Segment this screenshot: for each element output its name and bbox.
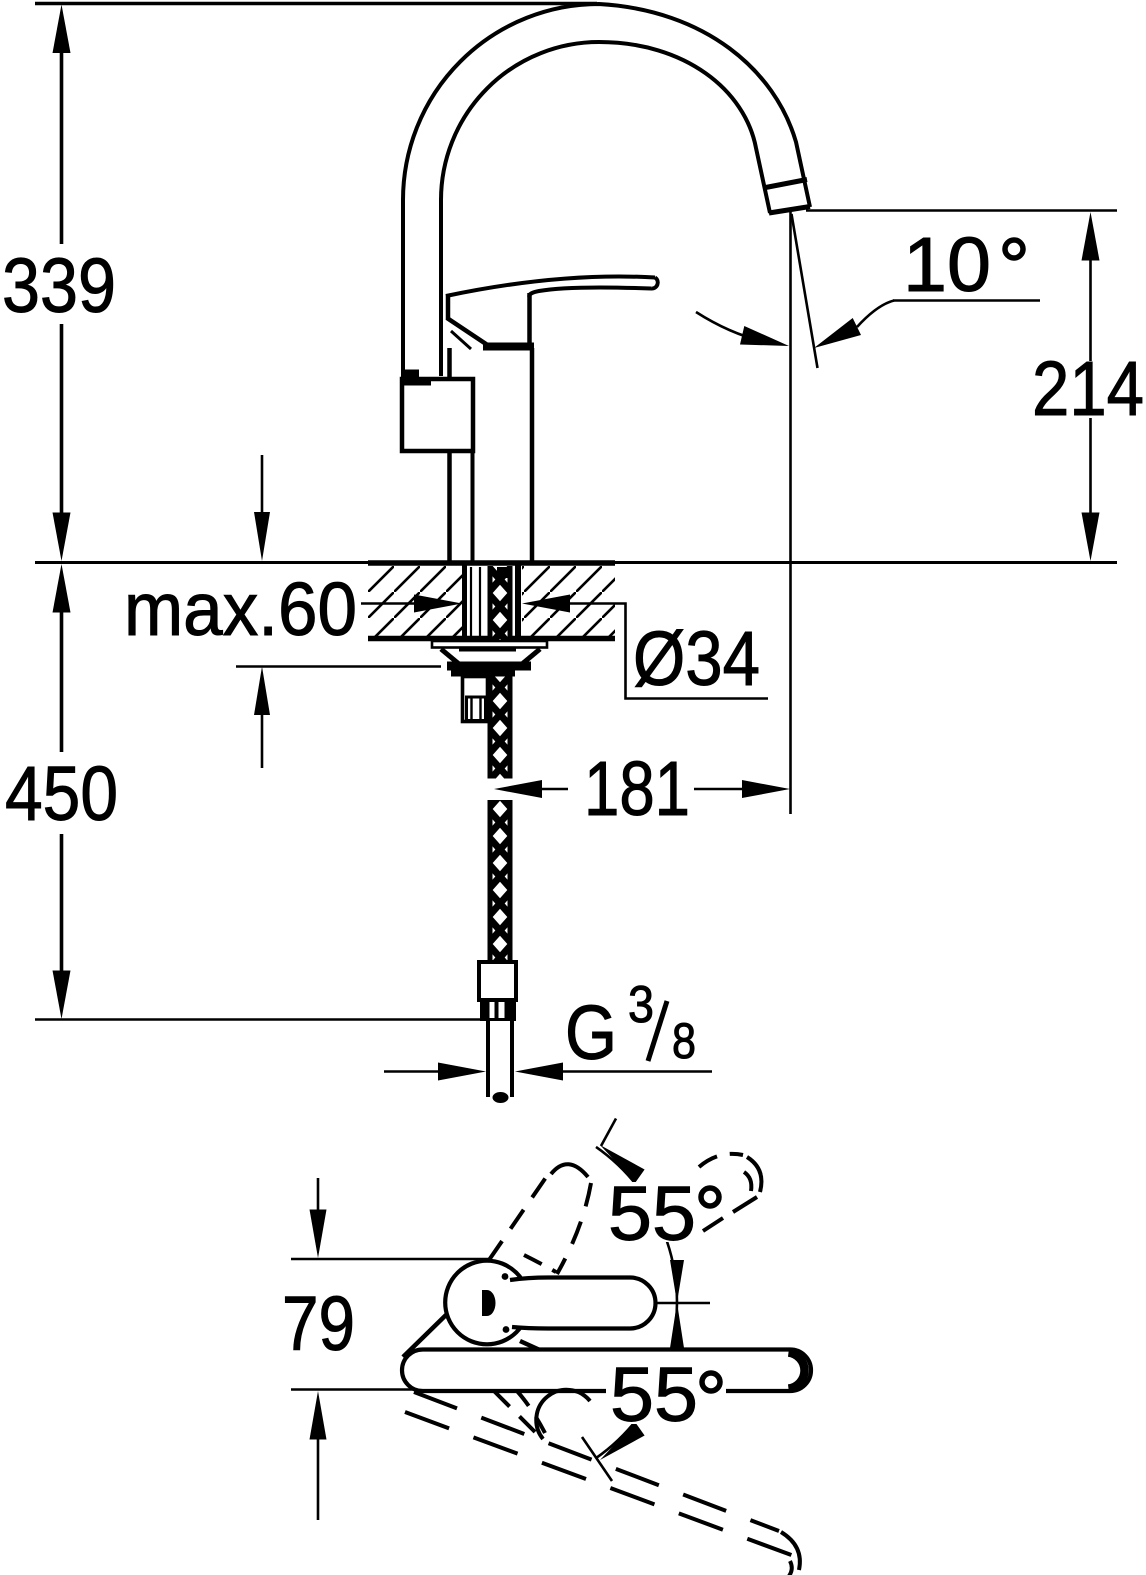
lower 55 arc (r=190) <box>596 1303 677 1459</box>
spout inner edge <box>441 42 770 213</box>
rotated lever down: left edge dashes <box>494 1391 540 1437</box>
dim 181 right arrow <box>742 780 790 798</box>
base tangent line right <box>520 1341 542 1351</box>
body right edge <box>530 348 535 561</box>
lever dot bottom <box>503 1326 510 1333</box>
braided hose side rails <box>490 566 510 966</box>
10deg underline <box>893 299 1040 302</box>
rotated lever up: tip cap dash <box>551 1164 588 1177</box>
shank end inner box <box>467 697 486 721</box>
braided hose (through hole and below nut) <box>488 566 512 640</box>
rotated lever up: left edge dashes <box>489 1173 549 1260</box>
svg-text:8: 8 <box>672 1013 696 1069</box>
rotated lever down: tip cap dash <box>536 1390 590 1439</box>
dim 339 line <box>60 52 64 514</box>
rotated spout down: lower edge dashes <box>405 1412 802 1559</box>
countertop section: left hatched block <box>368 566 462 636</box>
base tangent line left <box>403 1314 447 1357</box>
dim 79 arrow up <box>310 1391 327 1440</box>
top extension line <box>35 2 597 5</box>
side connection box <box>402 379 473 451</box>
svg-text:450: 450 <box>5 751 118 837</box>
lever dot top <box>502 1273 509 1280</box>
hole: shank right wall <box>515 563 521 640</box>
locknut upper black bar <box>447 662 531 671</box>
swing arc <box>696 312 775 344</box>
thin supply tube right edge <box>510 1021 514 1097</box>
hose end nut white slits <box>490 1002 495 1018</box>
dim 339 arrow up <box>53 5 71 54</box>
label 10 degree ring <box>1005 240 1023 258</box>
hole: shank left wall <box>462 563 467 640</box>
body inner line below box <box>471 451 475 561</box>
dim 339 arrow down <box>53 513 71 562</box>
svg-text:181: 181 <box>584 746 690 832</box>
dim 214 line <box>1089 259 1092 514</box>
spout riser outer line <box>401 198 405 378</box>
spout aerator band line <box>763 180 807 189</box>
upper 55 degree ring <box>701 1188 719 1206</box>
dim 450 arrow down <box>53 971 71 1020</box>
lever front vertical edge <box>446 294 451 320</box>
label 55 upper (with white bg) <box>604 1182 700 1242</box>
lever axis centerline <box>657 1302 710 1304</box>
upper 55 arc arrow <box>600 1145 645 1183</box>
hose end collar <box>479 962 516 1000</box>
thin supply tube left edge <box>486 1021 490 1097</box>
label 55 lower (with white bg) <box>606 1366 726 1424</box>
max60 right arrow <box>522 595 570 613</box>
dim 214 arrow up <box>1082 212 1100 261</box>
dim 181 left arrow <box>494 780 542 798</box>
max60 mid up-arrow line <box>261 715 264 768</box>
fraction slash <box>648 1001 667 1061</box>
max60 mid down-arrow <box>254 512 270 561</box>
svg-text:10: 10 <box>903 222 991 308</box>
max60 lower reference line <box>236 665 441 668</box>
lever handle top edge <box>446 276 655 296</box>
max60 left arrow <box>414 595 462 613</box>
svg-text:79: 79 <box>282 1281 355 1367</box>
rotated spout down: end cap inner dash <box>789 1561 792 1575</box>
lower 55 degree ring <box>702 1373 720 1391</box>
hole: stud thin line b <box>479 567 481 640</box>
lever handle bottom edge <box>529 287 651 297</box>
shank end inner vlines <box>472 698 481 720</box>
washer slant right <box>522 649 540 664</box>
svg-text:55: 55 <box>608 1171 696 1257</box>
washer slant left <box>441 649 459 664</box>
lower 55 arc arrow <box>600 1423 645 1461</box>
svg-text:55: 55 <box>610 1352 698 1438</box>
79 bottom extension line <box>291 1388 415 1391</box>
handle pivot circle <box>445 1261 529 1345</box>
spout outer edge <box>403 4 810 207</box>
countertop section: thick bottom edge <box>368 636 615 642</box>
10deg leader arrow <box>814 318 861 348</box>
dim 79 upper line <box>317 1178 320 1210</box>
dim 79 arrow down <box>310 1210 327 1259</box>
max60 leader line right / O34 corner <box>570 604 768 699</box>
dim G38 left line <box>384 1070 440 1073</box>
hole: stud thin line a <box>470 567 472 640</box>
lever outline <box>510 1278 656 1329</box>
lever handle tip cap <box>651 278 658 289</box>
rotated lever down: right edge dash <box>517 1391 545 1433</box>
spout bar thick end cap <box>789 1353 805 1389</box>
spout riser inner line <box>439 198 443 376</box>
cartridge dome slant outer <box>447 318 492 348</box>
hose end nut black <box>480 999 516 1021</box>
svg-text:Ø34: Ø34 <box>633 616 760 702</box>
max60 mid down-arrow line <box>261 455 264 513</box>
dim 181 line left <box>540 788 568 791</box>
swing arc arrow <box>740 326 789 346</box>
10deg leader curve <box>857 301 894 328</box>
flow direction 10deg line <box>792 214 818 368</box>
dim 79 lower line <box>317 1439 320 1520</box>
rotated spout down: end cap outer dash <box>781 1532 800 1570</box>
svg-text:3: 3 <box>628 976 654 1034</box>
spout bar <box>402 1350 811 1392</box>
bowtie arrow lower (points up) <box>670 1303 684 1349</box>
rotated lever up: right edge dashes <box>557 1183 591 1274</box>
lower rotated-lever centerline extension <box>582 1437 612 1481</box>
shank end outer box <box>463 677 488 722</box>
cartridge dome slant inner <box>451 331 471 349</box>
braid cap black top <box>497 567 511 578</box>
mounting washer plate <box>432 641 547 648</box>
dim G38 right line <box>563 1070 712 1073</box>
dim 450 bottom extension line <box>35 1018 486 1021</box>
braid white gap for 181 arrow <box>486 779 513 801</box>
dim G38 right arrow <box>515 1063 563 1081</box>
lever mask fill <box>510 1278 656 1329</box>
svg-text:max.60: max.60 <box>124 567 357 651</box>
spout outlet face <box>769 207 810 214</box>
max60 leader line left <box>361 602 416 605</box>
side box inner top line <box>404 381 431 386</box>
svg-text:214: 214 <box>1032 346 1144 432</box>
upper 55 arc (r=190) <box>596 1147 677 1303</box>
countertop section: right hatched block <box>522 566 615 636</box>
dim 450 arrow up <box>53 564 71 613</box>
rotated spout up: end cap dashes <box>699 1154 743 1167</box>
side box top tick <box>403 370 419 378</box>
bowtie arrow upper (points down) <box>670 1260 684 1303</box>
214 top extension line <box>806 209 1117 212</box>
svg-text:G: G <box>565 990 617 1076</box>
svg-text:339: 339 <box>2 243 116 329</box>
vertical reference line from spout tip <box>789 212 792 814</box>
rotated lever up: neck dash <box>524 1255 556 1272</box>
dim 181 line right <box>694 788 744 791</box>
countertop section: thick top edge <box>368 560 615 566</box>
dim 450 line <box>60 611 64 972</box>
body top cap bar <box>483 343 534 351</box>
lever D-mark <box>482 1290 496 1316</box>
cartridge stem vertical <box>527 293 532 348</box>
79 top extension line <box>291 1258 489 1261</box>
dim G38 left arrow <box>438 1063 486 1081</box>
max60 mid up-arrow <box>254 667 270 716</box>
rotated spout down: upper edge dashes <box>414 1392 779 1531</box>
body left edge <box>447 348 452 561</box>
locknut lower black bar <box>451 671 515 677</box>
washer inner line <box>459 649 516 652</box>
thin supply tube end tip <box>493 1092 509 1103</box>
dim 214 arrow down <box>1082 513 1100 562</box>
upper rotated-lever centerline extension <box>601 1119 616 1147</box>
countertop thin surface line (right segment) <box>615 561 1117 564</box>
countertop thin surface line (left segment) <box>35 561 368 564</box>
